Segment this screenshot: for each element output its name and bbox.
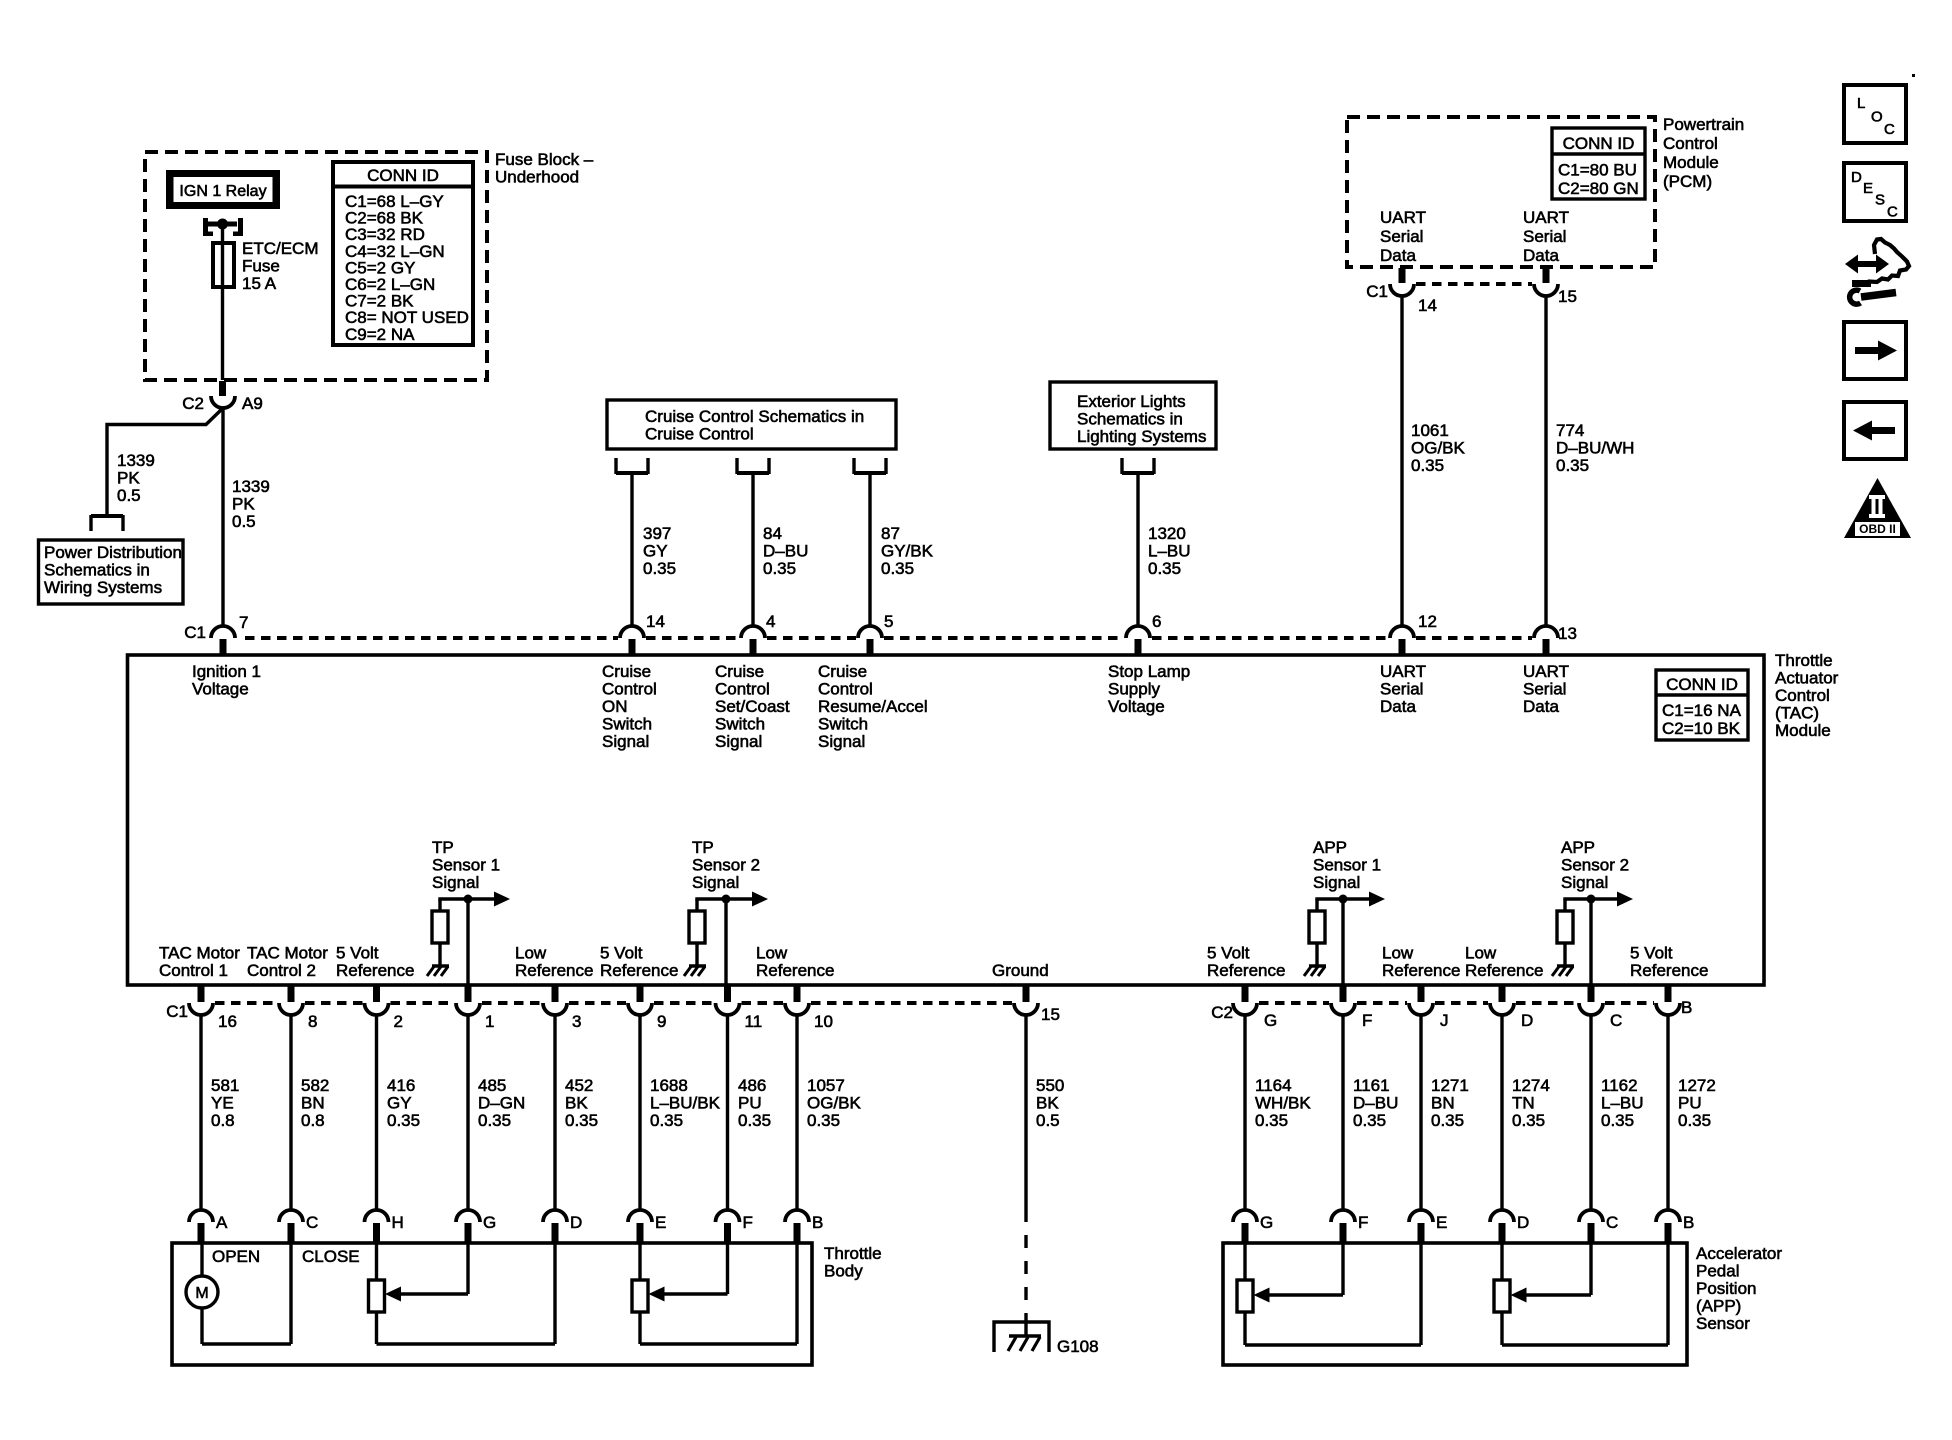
svg-text:L: L xyxy=(1857,95,1865,112)
svg-text:5 Volt: 5 Volt xyxy=(600,944,643,963)
svg-text:5 Volt: 5 Volt xyxy=(336,944,379,963)
svg-text:C1=80 BU: C1=80 BU xyxy=(1558,161,1637,180)
svg-text:13: 13 xyxy=(1558,624,1577,643)
svg-text:D–BU: D–BU xyxy=(763,542,808,561)
svg-text:Accelerator: Accelerator xyxy=(1696,1244,1782,1263)
svg-text:Position: Position xyxy=(1696,1279,1756,1298)
svg-text:1271: 1271 xyxy=(1431,1076,1469,1095)
svg-text:M: M xyxy=(195,1285,208,1302)
svg-text:Sensor: Sensor xyxy=(1696,1314,1750,1333)
svg-text:Exterior Lights: Exterior Lights xyxy=(1077,392,1186,411)
svg-text:C9=2 NA: C9=2 NA xyxy=(345,325,415,344)
svg-text:84: 84 xyxy=(763,524,782,543)
svg-text:Control: Control xyxy=(715,680,770,699)
svg-text:Signal: Signal xyxy=(432,873,479,892)
svg-text:L–BU: L–BU xyxy=(1148,542,1191,561)
svg-text:Data: Data xyxy=(1380,246,1416,265)
svg-text:C2: C2 xyxy=(182,394,204,413)
svg-text:8: 8 xyxy=(308,1012,317,1031)
svg-text:Low: Low xyxy=(1465,944,1497,963)
svg-text:C: C xyxy=(1610,1011,1622,1030)
svg-text:Control 2: Control 2 xyxy=(247,961,316,980)
svg-text:0.8: 0.8 xyxy=(211,1111,235,1130)
svg-text:Cruise: Cruise xyxy=(602,662,651,681)
svg-text:YE: YE xyxy=(211,1094,234,1113)
svg-text:Sensor 1: Sensor 1 xyxy=(1313,856,1381,875)
svg-text:Ignition 1: Ignition 1 xyxy=(192,662,261,681)
svg-text:Reference: Reference xyxy=(1382,961,1460,980)
svg-text:0.35: 0.35 xyxy=(763,559,796,578)
svg-text:Schematics in: Schematics in xyxy=(1077,410,1183,429)
svg-text:1057: 1057 xyxy=(807,1076,845,1095)
svg-text:PU: PU xyxy=(738,1094,762,1113)
svg-text:0.5: 0.5 xyxy=(117,486,141,505)
svg-text:APP: APP xyxy=(1313,838,1347,857)
svg-text:TP: TP xyxy=(432,838,454,857)
svg-text:D: D xyxy=(570,1213,582,1232)
svg-text:0.35: 0.35 xyxy=(1556,456,1589,475)
svg-text:1339: 1339 xyxy=(117,451,155,470)
svg-text:Control: Control xyxy=(1663,134,1718,153)
svg-text:0.35: 0.35 xyxy=(1678,1111,1711,1130)
svg-text:C: C xyxy=(1884,121,1895,138)
svg-text:0.35: 0.35 xyxy=(1411,456,1444,475)
svg-text:UART: UART xyxy=(1380,208,1426,227)
svg-text:Throttle: Throttle xyxy=(1775,651,1833,670)
svg-text:GY: GY xyxy=(643,542,668,561)
svg-text:J: J xyxy=(1440,1011,1449,1030)
svg-text:14: 14 xyxy=(646,612,665,631)
svg-text:C1: C1 xyxy=(166,1002,188,1021)
svg-text:(APP): (APP) xyxy=(1696,1297,1741,1316)
svg-text:CONN ID: CONN ID xyxy=(1666,675,1738,694)
svg-text:Low: Low xyxy=(515,944,547,963)
svg-text:Signal: Signal xyxy=(692,873,739,892)
svg-text:1274: 1274 xyxy=(1512,1076,1550,1095)
svg-text:0.5: 0.5 xyxy=(1036,1111,1060,1130)
svg-text:550: 550 xyxy=(1036,1076,1064,1095)
svg-text:Reference: Reference xyxy=(600,961,678,980)
svg-text:1688: 1688 xyxy=(650,1076,688,1095)
svg-text:OPEN: OPEN xyxy=(212,1247,260,1266)
svg-text:Set/Coast: Set/Coast xyxy=(715,697,790,716)
svg-text:15: 15 xyxy=(1041,1005,1060,1024)
svg-text:Supply: Supply xyxy=(1108,680,1160,699)
svg-text:Serial: Serial xyxy=(1523,680,1566,699)
svg-text:Cruise: Cruise xyxy=(715,662,764,681)
svg-text:OG/BK: OG/BK xyxy=(807,1094,862,1113)
svg-text:D: D xyxy=(1851,169,1862,186)
svg-text:0.35: 0.35 xyxy=(387,1111,420,1130)
svg-text:0.5: 0.5 xyxy=(232,512,256,531)
svg-text:Control: Control xyxy=(1775,686,1830,705)
svg-text:0.35: 0.35 xyxy=(738,1111,771,1130)
svg-text:D: D xyxy=(1521,1011,1533,1030)
svg-text:OG/BK: OG/BK xyxy=(1411,439,1466,458)
svg-text:C2: C2 xyxy=(1211,1003,1233,1022)
svg-text:Low: Low xyxy=(756,944,788,963)
svg-text:1339: 1339 xyxy=(232,477,270,496)
svg-text:Pedal: Pedal xyxy=(1696,1262,1739,1281)
svg-text:Low: Low xyxy=(1382,944,1414,963)
svg-text:Ground: Ground xyxy=(992,961,1049,980)
svg-text:15: 15 xyxy=(1558,287,1577,306)
svg-text:PK: PK xyxy=(117,469,140,488)
svg-text:Sensor 1: Sensor 1 xyxy=(432,856,500,875)
svg-text:486: 486 xyxy=(738,1076,766,1095)
svg-text:Body: Body xyxy=(824,1262,863,1281)
svg-text:Reference: Reference xyxy=(1465,961,1543,980)
svg-text:15 A: 15 A xyxy=(242,274,277,293)
svg-text:1272: 1272 xyxy=(1678,1076,1716,1095)
svg-text:5 Volt: 5 Volt xyxy=(1207,944,1250,963)
svg-text:0.35: 0.35 xyxy=(881,559,914,578)
svg-text:E: E xyxy=(1863,180,1873,197)
svg-text:G108: G108 xyxy=(1057,1337,1099,1356)
svg-text:Sensor 2: Sensor 2 xyxy=(692,856,760,875)
svg-text:Control: Control xyxy=(602,680,657,699)
svg-text:1161: 1161 xyxy=(1353,1076,1390,1095)
svg-text:Serial: Serial xyxy=(1523,227,1566,246)
svg-text:Control: Control xyxy=(818,680,873,699)
svg-text:D: D xyxy=(1517,1213,1529,1232)
svg-text:C1: C1 xyxy=(184,623,206,642)
svg-text:CONN ID: CONN ID xyxy=(367,166,439,185)
svg-text:G: G xyxy=(483,1213,496,1232)
svg-text:Signal: Signal xyxy=(818,732,865,751)
svg-text:A9: A9 xyxy=(242,394,263,413)
svg-text:87: 87 xyxy=(881,524,900,543)
svg-text:7: 7 xyxy=(239,613,248,632)
svg-text:1164: 1164 xyxy=(1255,1076,1292,1095)
svg-text:Switch: Switch xyxy=(818,715,868,734)
svg-text:Voltage: Voltage xyxy=(192,680,249,699)
svg-text:TN: TN xyxy=(1512,1094,1535,1113)
svg-text:0.35: 0.35 xyxy=(565,1111,598,1130)
svg-text:Signal: Signal xyxy=(1313,873,1360,892)
svg-text:Cruise Control: Cruise Control xyxy=(645,425,754,444)
svg-text:4: 4 xyxy=(766,612,775,631)
svg-text:B: B xyxy=(812,1213,823,1232)
svg-text:CONN ID: CONN ID xyxy=(1563,134,1635,153)
svg-text:UART: UART xyxy=(1380,662,1426,681)
svg-text:5 Volt: 5 Volt xyxy=(1630,944,1673,963)
svg-text:Power Distribution: Power Distribution xyxy=(44,543,182,562)
svg-text:Resume/Accel: Resume/Accel xyxy=(818,697,928,716)
svg-text:TP: TP xyxy=(692,838,714,857)
svg-text:BK: BK xyxy=(1036,1094,1059,1113)
svg-text:6: 6 xyxy=(1152,612,1161,631)
svg-text:Reference: Reference xyxy=(1207,961,1285,980)
svg-text:Cruise Control Schematics in: Cruise Control Schematics in xyxy=(645,407,864,426)
svg-text:Wiring Systems: Wiring Systems xyxy=(44,578,162,597)
svg-text:16: 16 xyxy=(218,1012,237,1031)
svg-text:1: 1 xyxy=(485,1012,494,1031)
svg-text:Throttle: Throttle xyxy=(824,1244,882,1263)
svg-text:582: 582 xyxy=(301,1076,329,1095)
svg-text:TAC Motor: TAC Motor xyxy=(247,944,328,963)
svg-text:IGN 1 Relay: IGN 1 Relay xyxy=(179,183,266,200)
svg-text:BK: BK xyxy=(565,1094,588,1113)
svg-text:C1=16 NA: C1=16 NA xyxy=(1662,701,1742,720)
svg-text:S: S xyxy=(1875,192,1885,209)
svg-text:BN: BN xyxy=(1431,1094,1455,1113)
svg-text:Schematics in: Schematics in xyxy=(44,561,150,580)
svg-text:H: H xyxy=(392,1213,404,1232)
svg-text:0.35: 0.35 xyxy=(1601,1111,1634,1130)
svg-text:0.35: 0.35 xyxy=(807,1111,840,1130)
svg-text:Reference: Reference xyxy=(756,961,834,980)
svg-text:L–BU: L–BU xyxy=(1601,1094,1644,1113)
svg-text:WH/BK: WH/BK xyxy=(1255,1094,1311,1113)
svg-text:Serial: Serial xyxy=(1380,680,1423,699)
svg-text:Actuator: Actuator xyxy=(1775,669,1839,688)
svg-text:C1: C1 xyxy=(1366,282,1388,301)
svg-text:UART: UART xyxy=(1523,662,1569,681)
svg-text:Underhood: Underhood xyxy=(495,168,579,187)
svg-text:C: C xyxy=(1887,204,1898,221)
svg-text:485: 485 xyxy=(478,1076,506,1095)
svg-text:Lighting Systems: Lighting Systems xyxy=(1077,427,1206,446)
svg-text:TAC Motor: TAC Motor xyxy=(159,944,240,963)
svg-text:D–BU/WH: D–BU/WH xyxy=(1556,439,1634,458)
svg-text:Control 1: Control 1 xyxy=(159,961,228,980)
svg-text:0.35: 0.35 xyxy=(1353,1111,1386,1130)
svg-text:1061: 1061 xyxy=(1411,421,1449,440)
svg-text:Switch: Switch xyxy=(602,715,652,734)
svg-text:Module: Module xyxy=(1663,153,1719,172)
svg-text:Reference: Reference xyxy=(336,961,414,980)
svg-text:G: G xyxy=(1264,1011,1277,1030)
svg-text:GY: GY xyxy=(387,1094,412,1113)
svg-text:A: A xyxy=(216,1213,228,1232)
svg-text:774: 774 xyxy=(1556,421,1584,440)
svg-text:Powertrain: Powertrain xyxy=(1663,115,1744,134)
svg-text:0.8: 0.8 xyxy=(301,1111,325,1130)
svg-text:0.35: 0.35 xyxy=(1255,1111,1288,1130)
svg-text:L–BU/BK: L–BU/BK xyxy=(650,1094,721,1113)
svg-text:Reference: Reference xyxy=(1630,961,1708,980)
svg-text:(TAC): (TAC) xyxy=(1775,704,1819,723)
svg-text:C2=10 BK: C2=10 BK xyxy=(1662,719,1741,738)
svg-text:PU: PU xyxy=(1678,1094,1702,1113)
svg-text:0.35: 0.35 xyxy=(1431,1111,1464,1130)
svg-text:0.35: 0.35 xyxy=(643,559,676,578)
svg-text:Data: Data xyxy=(1523,246,1559,265)
svg-text:397: 397 xyxy=(643,524,671,543)
svg-text:Fuse Block –: Fuse Block – xyxy=(495,150,594,169)
svg-text:Voltage: Voltage xyxy=(1108,697,1165,716)
svg-text:GY/BK: GY/BK xyxy=(881,542,934,561)
svg-text:D–BU: D–BU xyxy=(1353,1094,1398,1113)
svg-text:Serial: Serial xyxy=(1380,227,1423,246)
svg-text:Reference: Reference xyxy=(515,961,593,980)
svg-text:14: 14 xyxy=(1418,296,1437,315)
svg-text:C2=80 GN: C2=80 GN xyxy=(1558,179,1639,198)
svg-text:5: 5 xyxy=(884,612,893,631)
svg-text:BN: BN xyxy=(301,1094,325,1113)
svg-text:Data: Data xyxy=(1523,697,1559,716)
svg-text:Signal: Signal xyxy=(602,732,649,751)
svg-text:416: 416 xyxy=(387,1076,415,1095)
svg-text:B: B xyxy=(1683,1213,1694,1232)
svg-text:2: 2 xyxy=(394,1012,403,1031)
svg-text:C: C xyxy=(306,1213,318,1232)
svg-text:Module: Module xyxy=(1775,721,1831,740)
svg-text:Sensor 2: Sensor 2 xyxy=(1561,856,1629,875)
svg-text:PK: PK xyxy=(232,495,255,514)
svg-text:B: B xyxy=(1681,998,1692,1017)
svg-text:O: O xyxy=(1871,109,1883,126)
svg-text:Signal: Signal xyxy=(1561,873,1608,892)
svg-text:Switch: Switch xyxy=(715,715,765,734)
svg-text:0.35: 0.35 xyxy=(478,1111,511,1130)
svg-text:0.35: 0.35 xyxy=(1148,559,1181,578)
svg-text:3: 3 xyxy=(572,1012,581,1031)
svg-text:581: 581 xyxy=(211,1076,239,1095)
svg-text:10: 10 xyxy=(814,1012,833,1031)
svg-text:F: F xyxy=(1362,1011,1372,1030)
svg-text:C: C xyxy=(1606,1213,1618,1232)
svg-text:OBD II: OBD II xyxy=(1859,522,1896,536)
svg-text:(PCM): (PCM) xyxy=(1663,172,1712,191)
svg-text:Stop Lamp: Stop Lamp xyxy=(1108,662,1190,681)
svg-text:1320: 1320 xyxy=(1148,524,1186,543)
svg-text:Fuse: Fuse xyxy=(242,257,280,276)
svg-text:E: E xyxy=(655,1213,666,1232)
svg-text:ON: ON xyxy=(602,697,628,716)
svg-text:Cruise: Cruise xyxy=(818,662,867,681)
svg-text:11: 11 xyxy=(745,1012,763,1031)
svg-text:12: 12 xyxy=(1418,612,1437,631)
svg-text:APP: APP xyxy=(1561,838,1595,857)
svg-text:G: G xyxy=(1260,1213,1273,1232)
svg-text:1162: 1162 xyxy=(1601,1076,1638,1095)
svg-text:452: 452 xyxy=(565,1076,593,1095)
svg-text:E: E xyxy=(1436,1213,1447,1232)
svg-text:F: F xyxy=(743,1213,753,1232)
svg-text:Data: Data xyxy=(1380,697,1416,716)
svg-text:Signal: Signal xyxy=(715,732,762,751)
svg-text:9: 9 xyxy=(657,1012,666,1031)
svg-text:0.35: 0.35 xyxy=(1512,1111,1545,1130)
svg-text:ETC/ECM: ETC/ECM xyxy=(242,239,319,258)
svg-text:0.35: 0.35 xyxy=(650,1111,683,1130)
svg-text:CLOSE: CLOSE xyxy=(302,1247,360,1266)
svg-text:F: F xyxy=(1358,1213,1368,1232)
svg-text:D–GN: D–GN xyxy=(478,1094,525,1113)
svg-text:UART: UART xyxy=(1523,208,1569,227)
